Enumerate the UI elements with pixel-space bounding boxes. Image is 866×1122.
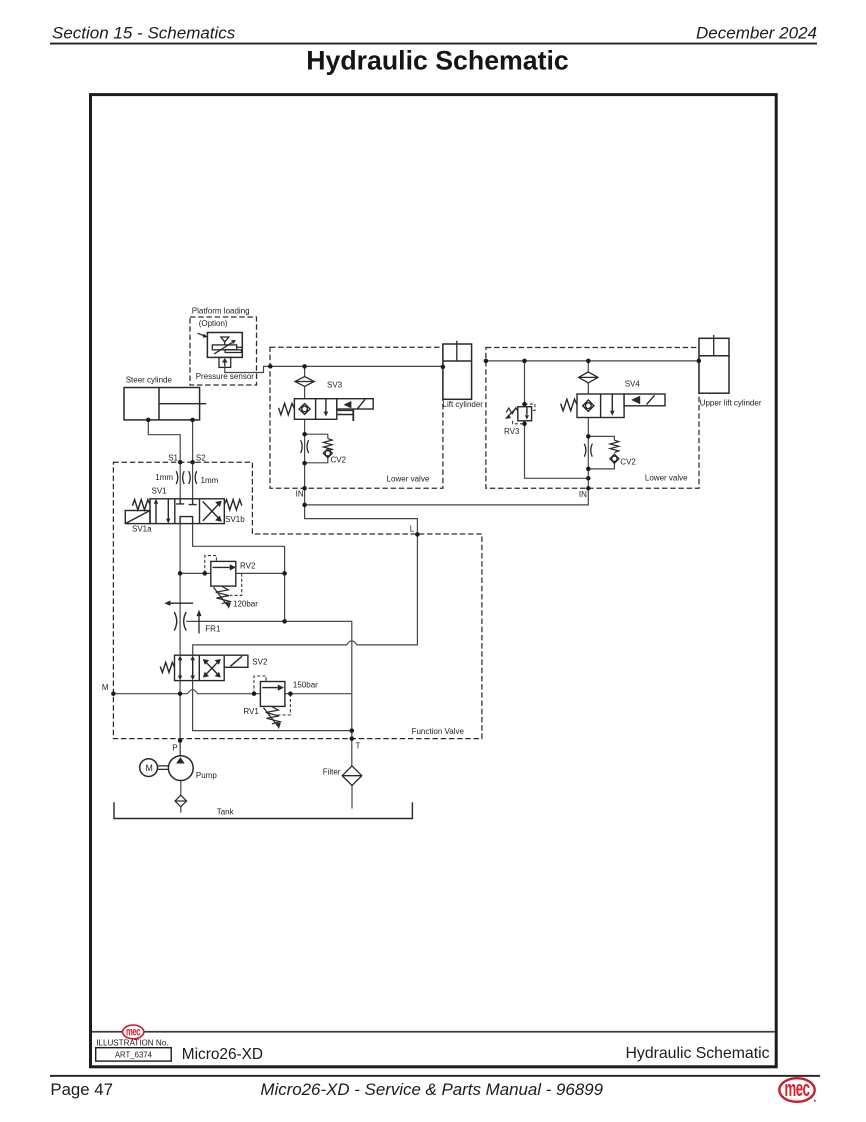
svg-text:Platform loading: Platform loading <box>192 306 250 315</box>
junction upper lift cylinder port <box>697 359 702 364</box>
wire CV2 left bypass <box>305 434 328 463</box>
wire FR1 output to T <box>186 621 351 738</box>
SV3 filter screen diamond <box>295 377 314 387</box>
svg-text:CV2: CV2 <box>620 457 636 466</box>
lift cylinder <box>443 341 472 400</box>
wire SV4 vertical <box>587 361 589 488</box>
wire CV2 right bypass <box>588 436 614 469</box>
wire L feed into function valve <box>193 505 418 655</box>
svg-text:SV1b: SV1b <box>225 515 245 524</box>
SV4 filter screen diamond <box>579 372 598 383</box>
svg-text:M: M <box>145 763 153 773</box>
svg-text:S1: S1 <box>168 453 178 462</box>
wire pump drain <box>180 781 182 813</box>
mec logo small (illustration) <box>123 1025 144 1039</box>
wire IN interconnect <box>305 488 589 505</box>
svg-text:SV4: SV4 <box>625 379 641 388</box>
svg-text:P: P <box>172 744 177 753</box>
svg-text:Function Valve: Function Valve <box>412 727 465 736</box>
mec logo large <box>779 1075 816 1102</box>
svg-text:ILLUSTRATION No.: ILLUSTRATION No. <box>96 1038 168 1047</box>
svg-text:Filter: Filter <box>323 768 341 777</box>
junction RV3 drain tap <box>522 422 527 427</box>
junction RV2 inlet line <box>178 571 183 576</box>
tank <box>114 802 412 818</box>
pump with motor <box>140 756 194 781</box>
svg-text:mec: mec <box>785 1075 810 1101</box>
svg-text:mec: mec <box>126 1026 141 1039</box>
svg-text:Steer cylinde: Steer cylinde <box>126 375 173 384</box>
junction SV2 return / T line <box>350 728 355 733</box>
junction RV2 outlet / FR1 line <box>282 619 287 624</box>
RV2 pilot dashes <box>205 556 217 574</box>
svg-text:Hydraulic Schematic: Hydraulic Schematic <box>306 46 569 76</box>
wire SV3 branch vertical <box>304 366 306 488</box>
junction steer cylinder rod port <box>190 418 195 423</box>
lower valve box (right) <box>486 348 699 489</box>
RV3 pilot dashes <box>525 404 535 410</box>
svg-text:CV2: CV2 <box>331 455 347 464</box>
svg-text:RV1: RV1 <box>243 707 259 716</box>
node L <box>415 532 420 537</box>
wire steer cylinder port S1 <box>148 420 180 499</box>
junction SV3 branch <box>302 364 307 369</box>
svg-text:M: M <box>102 683 109 692</box>
svg-text:L: L <box>410 525 415 534</box>
RV1 pilot dashes <box>254 676 266 694</box>
node T <box>350 736 355 741</box>
junction sensor wire / main line <box>268 364 273 369</box>
junction M line / P line <box>178 691 183 696</box>
FR1 flow regulator <box>164 601 201 634</box>
junction right box edge <box>484 359 489 364</box>
svg-text:SV1a: SV1a <box>132 524 152 533</box>
svg-text:Micro26-XD: Micro26-XD <box>182 1046 263 1063</box>
SV4 valve <box>561 394 665 418</box>
junction CV2 left top <box>302 432 307 437</box>
junction RV1 outlet pilot tap <box>288 691 293 696</box>
svg-text:Upper lift cylinder: Upper lift cylinder <box>700 398 762 407</box>
svg-text:RV3: RV3 <box>504 427 520 436</box>
svg-text:SV2: SV2 <box>252 658 268 667</box>
svg-text:S2: S2 <box>196 453 206 462</box>
svg-text:Lower valve: Lower valve <box>645 473 688 482</box>
footer strip rule inside box <box>92 1031 775 1033</box>
svg-text:Hydraulic Schematic: Hydraulic Schematic <box>626 1045 770 1062</box>
svg-text:FR1: FR1 <box>205 624 221 633</box>
SV1 valve <box>125 499 242 524</box>
junction steer cylinder piston port <box>146 418 151 423</box>
node P <box>178 738 183 743</box>
ART number box <box>96 1048 172 1061</box>
CV2 right check valve <box>584 440 619 463</box>
svg-text:120bar: 120bar <box>233 599 258 608</box>
wire steer cylinder port S2 <box>192 420 194 499</box>
node M <box>111 691 116 696</box>
SV2 valve <box>160 655 248 680</box>
steer cylinder <box>124 388 206 420</box>
function valve dashed box <box>113 462 482 738</box>
CV2 left check valve <box>301 439 333 458</box>
svg-text:Lower valve: Lower valve <box>387 475 430 484</box>
junction SV4 branch <box>586 359 591 364</box>
header rule <box>50 43 817 45</box>
pressure sensor <box>198 333 243 368</box>
outer frame box <box>91 95 777 1067</box>
RV2 reducing valve <box>211 561 236 608</box>
pump suction strainer diamond <box>175 795 187 807</box>
svg-text:Section 15 - Schematics: Section 15 - Schematics <box>52 24 236 43</box>
svg-text:ART_6374: ART_6374 <box>115 1051 153 1060</box>
filter diamond <box>342 766 362 786</box>
wire T to filter to tank <box>351 739 353 809</box>
wire RV2 right <box>236 572 285 574</box>
junction RV3 return <box>586 476 591 481</box>
wire RV2 left <box>180 572 211 574</box>
svg-text:Pressure sensor: Pressure sensor <box>196 372 255 381</box>
svg-text:(Option): (Option) <box>199 319 228 328</box>
platform loading option dashed box <box>190 317 257 385</box>
svg-text:1mm: 1mm <box>201 476 219 485</box>
svg-text:SV1: SV1 <box>152 486 168 495</box>
RV1 relief valve <box>260 682 285 730</box>
wire SV1 port1 down to pump P <box>179 524 181 758</box>
wire M line with hop <box>113 690 260 694</box>
junction CV2 right top <box>586 434 591 439</box>
wire SV2 return to T <box>193 681 352 731</box>
svg-text:1mm: 1mm <box>155 473 173 482</box>
svg-text:Tank: Tank <box>217 808 235 817</box>
node S2 <box>190 460 195 465</box>
svg-text:SV3: SV3 <box>327 381 343 390</box>
wire RV3 branch <box>525 361 589 478</box>
SV3 valve <box>279 399 374 421</box>
junction RV2 pilot tap <box>203 571 208 576</box>
junction RV3 pilot tap <box>522 402 527 407</box>
page footer rule <box>50 1075 820 1077</box>
svg-text:150bar: 150bar <box>293 681 318 690</box>
wire right box top line <box>486 360 699 362</box>
svg-text:Lift cylinder: Lift cylinder <box>443 400 484 409</box>
S1 S2 orifices <box>176 471 197 484</box>
junction CV2 right bottom <box>586 467 591 472</box>
wire RV1 right to T <box>285 693 352 695</box>
svg-text:RV2: RV2 <box>240 561 256 570</box>
lower valve box (left) <box>270 347 443 488</box>
svg-text:December 2024: December 2024 <box>696 24 817 43</box>
wire main top line to lift cylinder <box>270 365 443 367</box>
RV3 relief valve <box>505 407 532 421</box>
node IN right <box>586 486 591 491</box>
wire SV1 port2 to RV2 right <box>193 524 285 622</box>
node IN left <box>302 486 307 491</box>
svg-text:IN: IN <box>296 489 304 498</box>
junction IN interconnect <box>302 503 307 508</box>
svg-text:Page 47: Page 47 <box>50 1080 113 1099</box>
svg-text:IN: IN <box>579 490 587 499</box>
wire P to pump <box>179 741 181 757</box>
junction CV2 left bottom <box>302 461 307 466</box>
junction RV2 outlet <box>282 571 287 576</box>
junction lift cylinder port <box>441 365 446 370</box>
svg-text:T: T <box>356 742 361 751</box>
node S1 <box>178 460 183 465</box>
svg-text:Micro26-XD - Service & Parts M: Micro26-XD - Service & Parts Manual - 96… <box>260 1080 603 1099</box>
upper lift cylinder <box>699 335 729 393</box>
junction RV1 inlet pilot tap <box>252 691 257 696</box>
svg-text:Pump: Pump <box>196 771 217 780</box>
wire pressure sensor to main line <box>225 366 270 372</box>
junction RV3 branch <box>522 359 527 364</box>
PILOT-DASHES <box>205 404 535 715</box>
